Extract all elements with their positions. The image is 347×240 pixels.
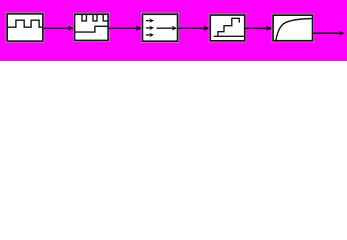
block B4 body [210,15,244,41]
B3 icon: small arrow 3 [146,34,150,36]
arrowhead into B2 [68,26,74,31]
output wire from B5 [313,32,339,34]
wire B4 to B5 [245,27,267,29]
magenta background [0,0,347,61]
B3 icon: long arrow [157,27,174,29]
B3 icon: small arrow 1 [146,20,150,22]
B4 icon: staircase [218,18,239,36]
block B1 (pulse source) shadow halo [7,14,43,41]
B2 icon: clock square-wave notch 1 [82,14,86,21]
B5 icon: exponential saturation curve [276,19,312,41]
B2 icon: held-sample step line [75,26,108,32]
B2 icon: clock square-wave notch 2 [93,14,97,21]
B4 icon: baseline [214,35,244,37]
block B4 (quantizer staircase) halo [210,15,244,41]
block B3 (unbuffer) halo [143,14,178,41]
arrowhead into B3 [136,26,142,31]
B1 icon: square wave [8,20,43,27]
block B2 body [75,14,109,40]
block B1 (pulse source) body [7,14,43,41]
wire B1 to B2 [44,27,70,29]
block B5 body [273,15,312,41]
output arrowhead [339,31,345,36]
wire B2 to B3 [109,27,138,29]
B3 icon: small arrow 2 [146,27,150,29]
B2 icon: clock square-wave notch 3 [103,14,108,21]
block B5 (saturation curve) halo [273,15,312,41]
arrowhead into B4 [203,26,209,31]
block B2 (sample & hold) halo [75,14,109,40]
arrowhead into B5 [266,26,272,31]
wire B3 to B4 [178,27,205,29]
block B3 body [143,14,178,41]
